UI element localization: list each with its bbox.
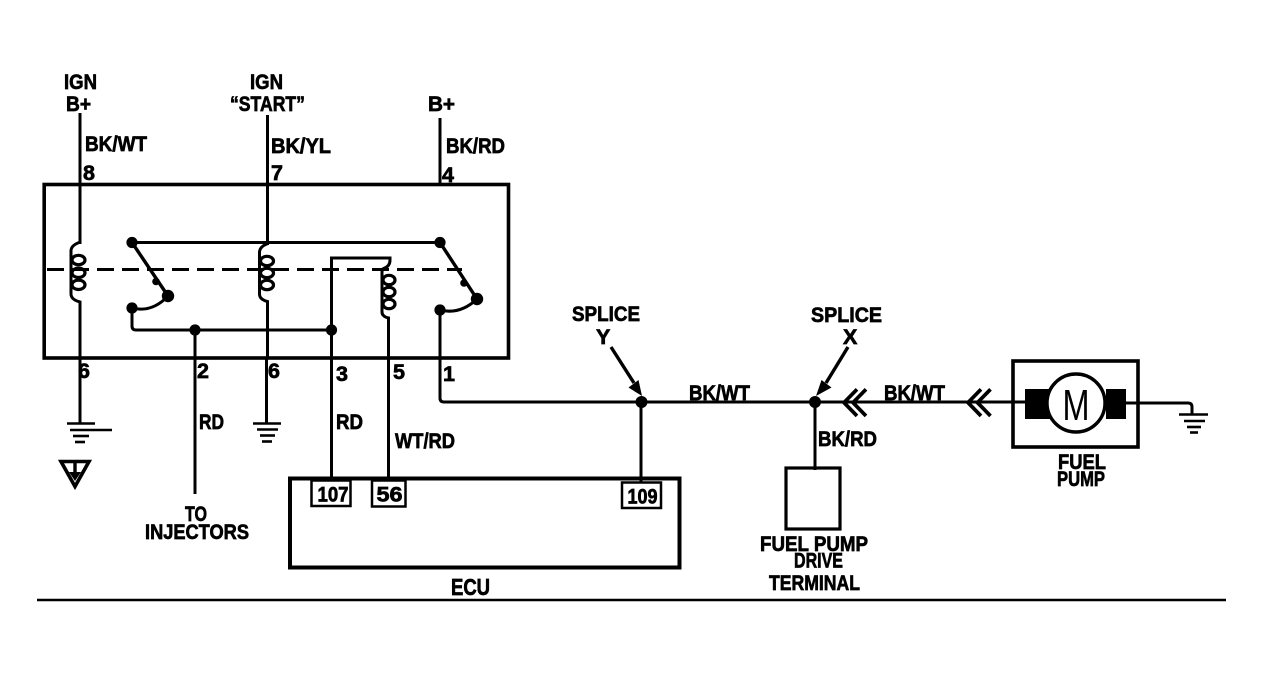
svg-text:B+: B+ — [428, 92, 455, 116]
wire RD pin 2 to injectors — [194, 330, 197, 494]
connector chevrons pair 1 — [844, 389, 866, 416]
svg-text:“START”: “START” — [230, 92, 305, 116]
svg-text:7: 7 — [271, 161, 283, 185]
svg-text:BK/RD: BK/RD — [446, 134, 505, 158]
label FUEL PUMP — [1057, 450, 1106, 491]
node splice X — [809, 396, 821, 408]
svg-text:M: M — [1063, 381, 1090, 430]
svg-text:107: 107 — [318, 484, 349, 507]
svg-text:56: 56 — [377, 484, 403, 507]
switch S2 — [434, 237, 483, 316]
svg-text:BK/YL: BK/YL — [271, 134, 331, 158]
wire S1 common to node — [132, 308, 195, 330]
svg-text:2: 2 — [197, 359, 209, 383]
wire BK/RD from B+ to relay pin 4 — [439, 118, 442, 184]
wire splice Y to ECU 109 — [640, 402, 643, 485]
wire switch bus S1 to S2 — [132, 241, 440, 244]
label TO INJECTORS — [145, 502, 249, 544]
svg-text:INJECTORS: INJECTORS — [145, 520, 249, 544]
wire node pin2 to node pin3 — [195, 329, 332, 332]
label SPLICE Y — [572, 302, 640, 349]
svg-text:BK/RD: BK/RD — [818, 427, 877, 451]
ground arrow symbol — [61, 462, 89, 487]
dashed actuation line — [47, 268, 462, 271]
bottom rule — [37, 599, 1226, 601]
wire fuel pump to ground G3 — [1126, 403, 1192, 414]
svg-text:WT/RD: WT/RD — [395, 429, 455, 453]
ground G1 — [67, 424, 112, 443]
svg-text:TERMINAL: TERMINAL — [769, 571, 860, 595]
wire WT/RD pin 5 to ECU 56 — [387, 358, 390, 479]
svg-text:SPLICE: SPLICE — [811, 303, 882, 327]
svg-text:DRIVE: DRIVE — [794, 549, 843, 573]
fuel pump box — [1013, 361, 1138, 447]
node pin2 junction — [189, 324, 200, 335]
arrow to splice X — [816, 347, 848, 396]
switch S1 — [126, 237, 174, 314]
node IGN B+ label — [64, 70, 97, 116]
relay box — [44, 185, 508, 359]
node splice Y — [636, 396, 648, 408]
svg-text:5: 5 — [393, 360, 405, 384]
motor brush left — [1025, 389, 1050, 419]
relay coil L1 — [71, 184, 85, 358]
motor M circle — [1047, 374, 1105, 432]
svg-text:X: X — [843, 325, 858, 349]
svg-text:3: 3 — [336, 362, 348, 386]
wire BK/WT from IGN B+ to relay pin 8 — [79, 113, 82, 184]
label SPLICE X — [811, 303, 882, 349]
svg-text:RD: RD — [199, 410, 224, 434]
svg-text:B+: B+ — [66, 92, 91, 116]
wire RD pin 3 to ECU 107 — [330, 330, 333, 479]
svg-text:BK/WT: BK/WT — [85, 132, 147, 156]
ECU pin 56 — [372, 481, 406, 507]
wire BK/WT pin 1 to fuel pump — [440, 310, 1025, 402]
connector chevrons pair 2 — [968, 389, 991, 416]
fuel pump drive terminal box — [786, 468, 840, 529]
label FUEL PUMP DRIVE TERMINAL — [760, 532, 868, 595]
svg-text:8: 8 — [83, 161, 95, 185]
wire BK/YL from IGN START to relay pin 7 — [266, 115, 269, 184]
svg-text:1: 1 — [443, 362, 455, 386]
svg-text:RD: RD — [336, 410, 363, 434]
ECU box — [290, 479, 680, 568]
arrow to splice Y — [611, 347, 642, 396]
wire BK/RD splice X to drive terminal — [814, 402, 817, 470]
relay coil L2 — [260, 184, 274, 358]
svg-text:BK/WT: BK/WT — [689, 381, 750, 405]
wire pin 6 to ground G1 — [79, 358, 82, 423]
svg-text:ECU: ECU — [451, 574, 490, 600]
wire pin 6 to ground G2 — [265, 358, 268, 423]
node IGN START label — [230, 70, 305, 116]
ECU pin 107 — [312, 481, 351, 507]
svg-text:Y: Y — [596, 325, 610, 349]
motor brush right — [1106, 389, 1126, 419]
svg-text:SPLICE: SPLICE — [572, 302, 640, 326]
svg-text:PUMP: PUMP — [1057, 467, 1105, 491]
svg-text:IGN: IGN — [64, 70, 97, 94]
ECU pin 109 — [622, 483, 661, 509]
svg-text:IGN: IGN — [250, 70, 283, 94]
ground G2 — [253, 424, 281, 442]
svg-text:109: 109 — [628, 486, 658, 509]
node pin3 junction — [326, 324, 337, 335]
ground G3 — [1179, 415, 1208, 433]
relay coil L3 — [332, 258, 396, 358]
svg-text:BK/WT: BK/WT — [884, 381, 945, 405]
svg-text:6: 6 — [268, 359, 280, 383]
